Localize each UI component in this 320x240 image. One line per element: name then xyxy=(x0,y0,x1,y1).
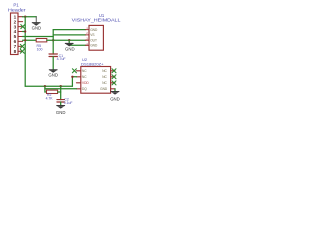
svg-text:8: 8 xyxy=(14,49,17,54)
wire to U1 pin4 xyxy=(69,44,85,46)
wire U2 GND pin down xyxy=(114,89,116,92)
wire pin1 to GND symbol xyxy=(23,16,37,18)
resistor R2 body xyxy=(47,90,58,93)
U1 pin numbers xyxy=(86,27,88,46)
svg-text:4.7uF: 4.7uF xyxy=(57,57,66,61)
svg-text:GND: GND xyxy=(65,46,75,51)
svg-text:VDD: VDD xyxy=(82,81,89,85)
svg-text:NC: NC xyxy=(102,69,107,73)
wire bottom VCC rail xyxy=(25,85,72,87)
connector P1 pin stubs xyxy=(18,17,23,52)
no-connect X U2 right pin NC2 xyxy=(112,75,116,79)
no-connect X U2 right pin NC3 xyxy=(112,81,116,85)
svg-text:Header: Header xyxy=(8,7,26,12)
wire vertical bus from pin1 down to bottom rail xyxy=(24,17,26,87)
wire to U1 pin2 xyxy=(53,34,85,36)
wire C2 to GND5 xyxy=(60,102,62,106)
no-connect X pin 3 xyxy=(21,25,25,29)
wire R5 to U1 OUT xyxy=(47,39,86,41)
IC U1 body xyxy=(89,25,103,50)
svg-text:NC: NC xyxy=(102,75,107,79)
wire C2 node vertical xyxy=(60,86,62,99)
U2 right pin stubs xyxy=(111,71,115,89)
svg-text:GND: GND xyxy=(100,87,108,91)
wire C1 to GND3 xyxy=(52,57,54,70)
resistor R5 body xyxy=(36,39,47,42)
wire vertical VS node xyxy=(52,30,54,54)
wire pin6 to R5 xyxy=(23,39,37,41)
wire R2 to C2 node xyxy=(58,91,61,93)
junction pin4 xyxy=(24,30,26,32)
svg-text:GND: GND xyxy=(32,25,42,30)
U1 pin stubs xyxy=(86,30,90,46)
wire to U1 pin1 xyxy=(53,29,85,31)
svg-text:NC: NC xyxy=(82,75,87,79)
wire riser to U2 VDD row xyxy=(72,77,76,86)
svg-text:100: 100 xyxy=(37,47,43,51)
svg-text:NC: NC xyxy=(102,81,107,85)
wire DQ down to R2 xyxy=(45,86,47,92)
ground symbol GND4 xyxy=(0,0,1,1)
capacitor C2 plates xyxy=(57,100,65,102)
svg-text:VS: VS xyxy=(90,33,94,37)
svg-text:DS18B20Z+: DS18B20Z+ xyxy=(81,62,104,66)
svg-text:GND: GND xyxy=(90,44,98,48)
wire pin4 tap xyxy=(23,31,26,33)
wire GND2 drop xyxy=(68,40,70,43)
junction OUT GND2 node xyxy=(68,39,70,41)
no-connect X U2 right pin NC1 xyxy=(112,69,116,73)
junction pin6 row xyxy=(24,39,26,41)
IC U2 body xyxy=(81,67,111,94)
ground symbol GND1 xyxy=(35,17,37,23)
svg-text:VISHAY_HEIMDALL: VISHAY_HEIMDALL xyxy=(72,18,121,23)
junction rail left xyxy=(44,85,46,87)
junction R5 node xyxy=(52,39,54,41)
junction riser top xyxy=(71,76,73,78)
no-connect X pin 7 xyxy=(20,44,24,48)
ground symbol GND3 xyxy=(0,0,1,1)
svg-text:DQ: DQ xyxy=(82,87,87,91)
junction rail right xyxy=(60,85,62,87)
ground symbol GND5 xyxy=(0,0,1,1)
wire pin5 row xyxy=(23,36,54,38)
svg-text:4.7K: 4.7K xyxy=(46,96,54,100)
U2 left pin stubs xyxy=(76,71,80,89)
svg-text:NC: NC xyxy=(82,69,87,73)
svg-text:0.1uF: 0.1uF xyxy=(64,101,73,105)
svg-text:GND: GND xyxy=(56,110,66,115)
svg-text:GND: GND xyxy=(110,97,120,102)
no-connect X U2 left pin1 xyxy=(72,69,76,73)
no-connect X pin 8 xyxy=(20,49,24,53)
connector P1 body xyxy=(11,13,19,55)
svg-text:OUT: OUT xyxy=(90,38,97,42)
ground symbol GND2 xyxy=(0,0,1,1)
svg-text:GND: GND xyxy=(90,28,98,32)
capacitor C1 plates xyxy=(49,54,57,57)
wire DQ row from U2 xyxy=(45,88,77,90)
junction pin1 xyxy=(24,16,26,18)
svg-text:GND: GND xyxy=(48,73,58,78)
